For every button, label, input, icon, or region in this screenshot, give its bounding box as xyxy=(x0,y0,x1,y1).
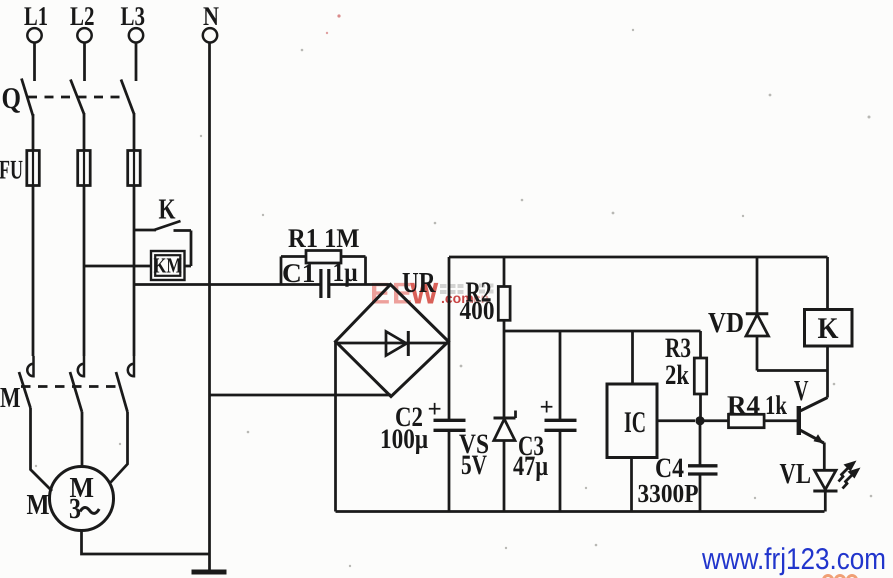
zener VS xyxy=(459,411,516,512)
svg-text:L1: L1 xyxy=(24,1,48,31)
second rail xyxy=(504,330,701,333)
svg-text:1μ: 1μ xyxy=(333,257,358,287)
wire L3 to R1C1 xyxy=(134,283,281,286)
watermark fragment bottom right xyxy=(824,576,857,578)
svg-text:N: N xyxy=(203,1,219,31)
resistor R2 xyxy=(460,257,511,325)
relay contact K xyxy=(134,194,191,231)
wire bridge DC minus xyxy=(334,342,337,512)
wire L2 column xyxy=(83,186,86,357)
bridge rectifier UR xyxy=(336,267,449,397)
wire K contact to KM xyxy=(184,231,191,267)
svg-text:R1 1M: R1 1M xyxy=(288,223,360,253)
IC U1 xyxy=(607,331,695,512)
svg-text:FU: FU xyxy=(0,155,23,185)
motor M 3-phase xyxy=(50,467,114,531)
svg-text:www.frj123.com: www.frj123.com xyxy=(701,543,886,576)
wire L1 drop xyxy=(33,43,36,82)
svg-text:K: K xyxy=(159,194,176,226)
svg-text:47μ: 47μ xyxy=(513,451,548,482)
svg-text:V: V xyxy=(794,375,809,407)
LED VL xyxy=(780,458,838,512)
svg-text:1k: 1k xyxy=(765,390,787,420)
svg-text:KM: KM xyxy=(154,254,183,278)
wire L2 to fuse xyxy=(83,113,86,151)
svg-text:+: + xyxy=(428,396,442,423)
wire L1 column xyxy=(32,186,35,357)
switch Q pole 1 xyxy=(22,79,34,117)
wire L3 drop xyxy=(135,43,138,82)
R1C1 bracket wires xyxy=(281,257,391,285)
svg-text:L2: L2 xyxy=(70,1,95,31)
fuse FU1 xyxy=(27,151,40,186)
transistor V xyxy=(794,371,828,471)
svg-text:100μ: 100μ xyxy=(380,424,428,455)
svg-text:VL: VL xyxy=(780,458,812,490)
wire L2 drop xyxy=(83,43,86,82)
svg-text:VD: VD xyxy=(708,307,744,339)
capacitor C4 xyxy=(638,421,718,512)
svg-text:3: 3 xyxy=(69,493,81,525)
svg-text:5V: 5V xyxy=(461,450,487,481)
diode VD xyxy=(708,257,769,371)
LED light arrows xyxy=(839,461,861,489)
contactor coil KM xyxy=(151,251,185,280)
resistor R1 xyxy=(288,223,360,263)
fuse FU3 xyxy=(128,151,141,186)
wire N to bridge AC2 xyxy=(210,394,392,397)
switch M pole 2 xyxy=(70,356,84,412)
svg-text:400: 400 xyxy=(460,296,495,325)
switch M pole 3 xyxy=(116,356,134,412)
svg-text:K: K xyxy=(818,312,840,345)
capacitor C2 xyxy=(380,342,466,512)
relay coil K xyxy=(805,257,853,371)
terminal L2 xyxy=(70,1,95,43)
svg-text:L3: L3 xyxy=(121,1,146,31)
terminal L3 xyxy=(121,1,146,43)
fuse FU2 xyxy=(78,151,91,186)
switch Q pole 2 xyxy=(71,80,85,115)
capacitor C1 xyxy=(282,257,358,298)
wire L2 to KM xyxy=(84,265,151,268)
resistor R4 xyxy=(704,390,798,428)
switch Q linkage dashed xyxy=(28,96,128,99)
switch M pole 1 xyxy=(19,356,34,408)
ground xyxy=(192,570,227,575)
svg-text:+: + xyxy=(540,394,554,421)
wire motor to N xyxy=(82,531,210,555)
wire VD to collector xyxy=(757,369,828,372)
wire M2 to motor xyxy=(81,412,84,467)
svg-text:3300P: 3300P xyxy=(638,479,699,508)
resistor R3 xyxy=(665,331,707,421)
svg-text:IC: IC xyxy=(624,406,646,439)
svg-text:UR: UR xyxy=(402,267,436,299)
capacitor C3 xyxy=(513,331,577,512)
wire bridge DC plus up xyxy=(448,257,451,342)
top rail xyxy=(449,256,828,259)
terminal L1 xyxy=(24,1,48,43)
wire L3 to fuse xyxy=(133,113,136,151)
wire R2 to VS xyxy=(503,320,506,418)
svg-text:Q: Q xyxy=(2,82,22,115)
bottom rail xyxy=(336,510,825,513)
wire M1 to motor xyxy=(31,408,53,491)
wire M3 to motor xyxy=(111,412,128,483)
svg-text:2k: 2k xyxy=(665,360,689,391)
svg-text:M: M xyxy=(27,489,50,521)
svg-text:R4: R4 xyxy=(727,390,760,420)
wire L1 to fuse xyxy=(32,114,35,151)
wire L3 column xyxy=(133,186,136,357)
switch Q pole 3 xyxy=(121,80,134,115)
terminal N xyxy=(203,1,220,43)
node junction xyxy=(695,416,704,425)
watermark EEW xyxy=(370,278,494,311)
switch M linkage dashed xyxy=(21,385,121,388)
wire N column xyxy=(208,43,211,572)
svg-text:M: M xyxy=(0,382,21,414)
